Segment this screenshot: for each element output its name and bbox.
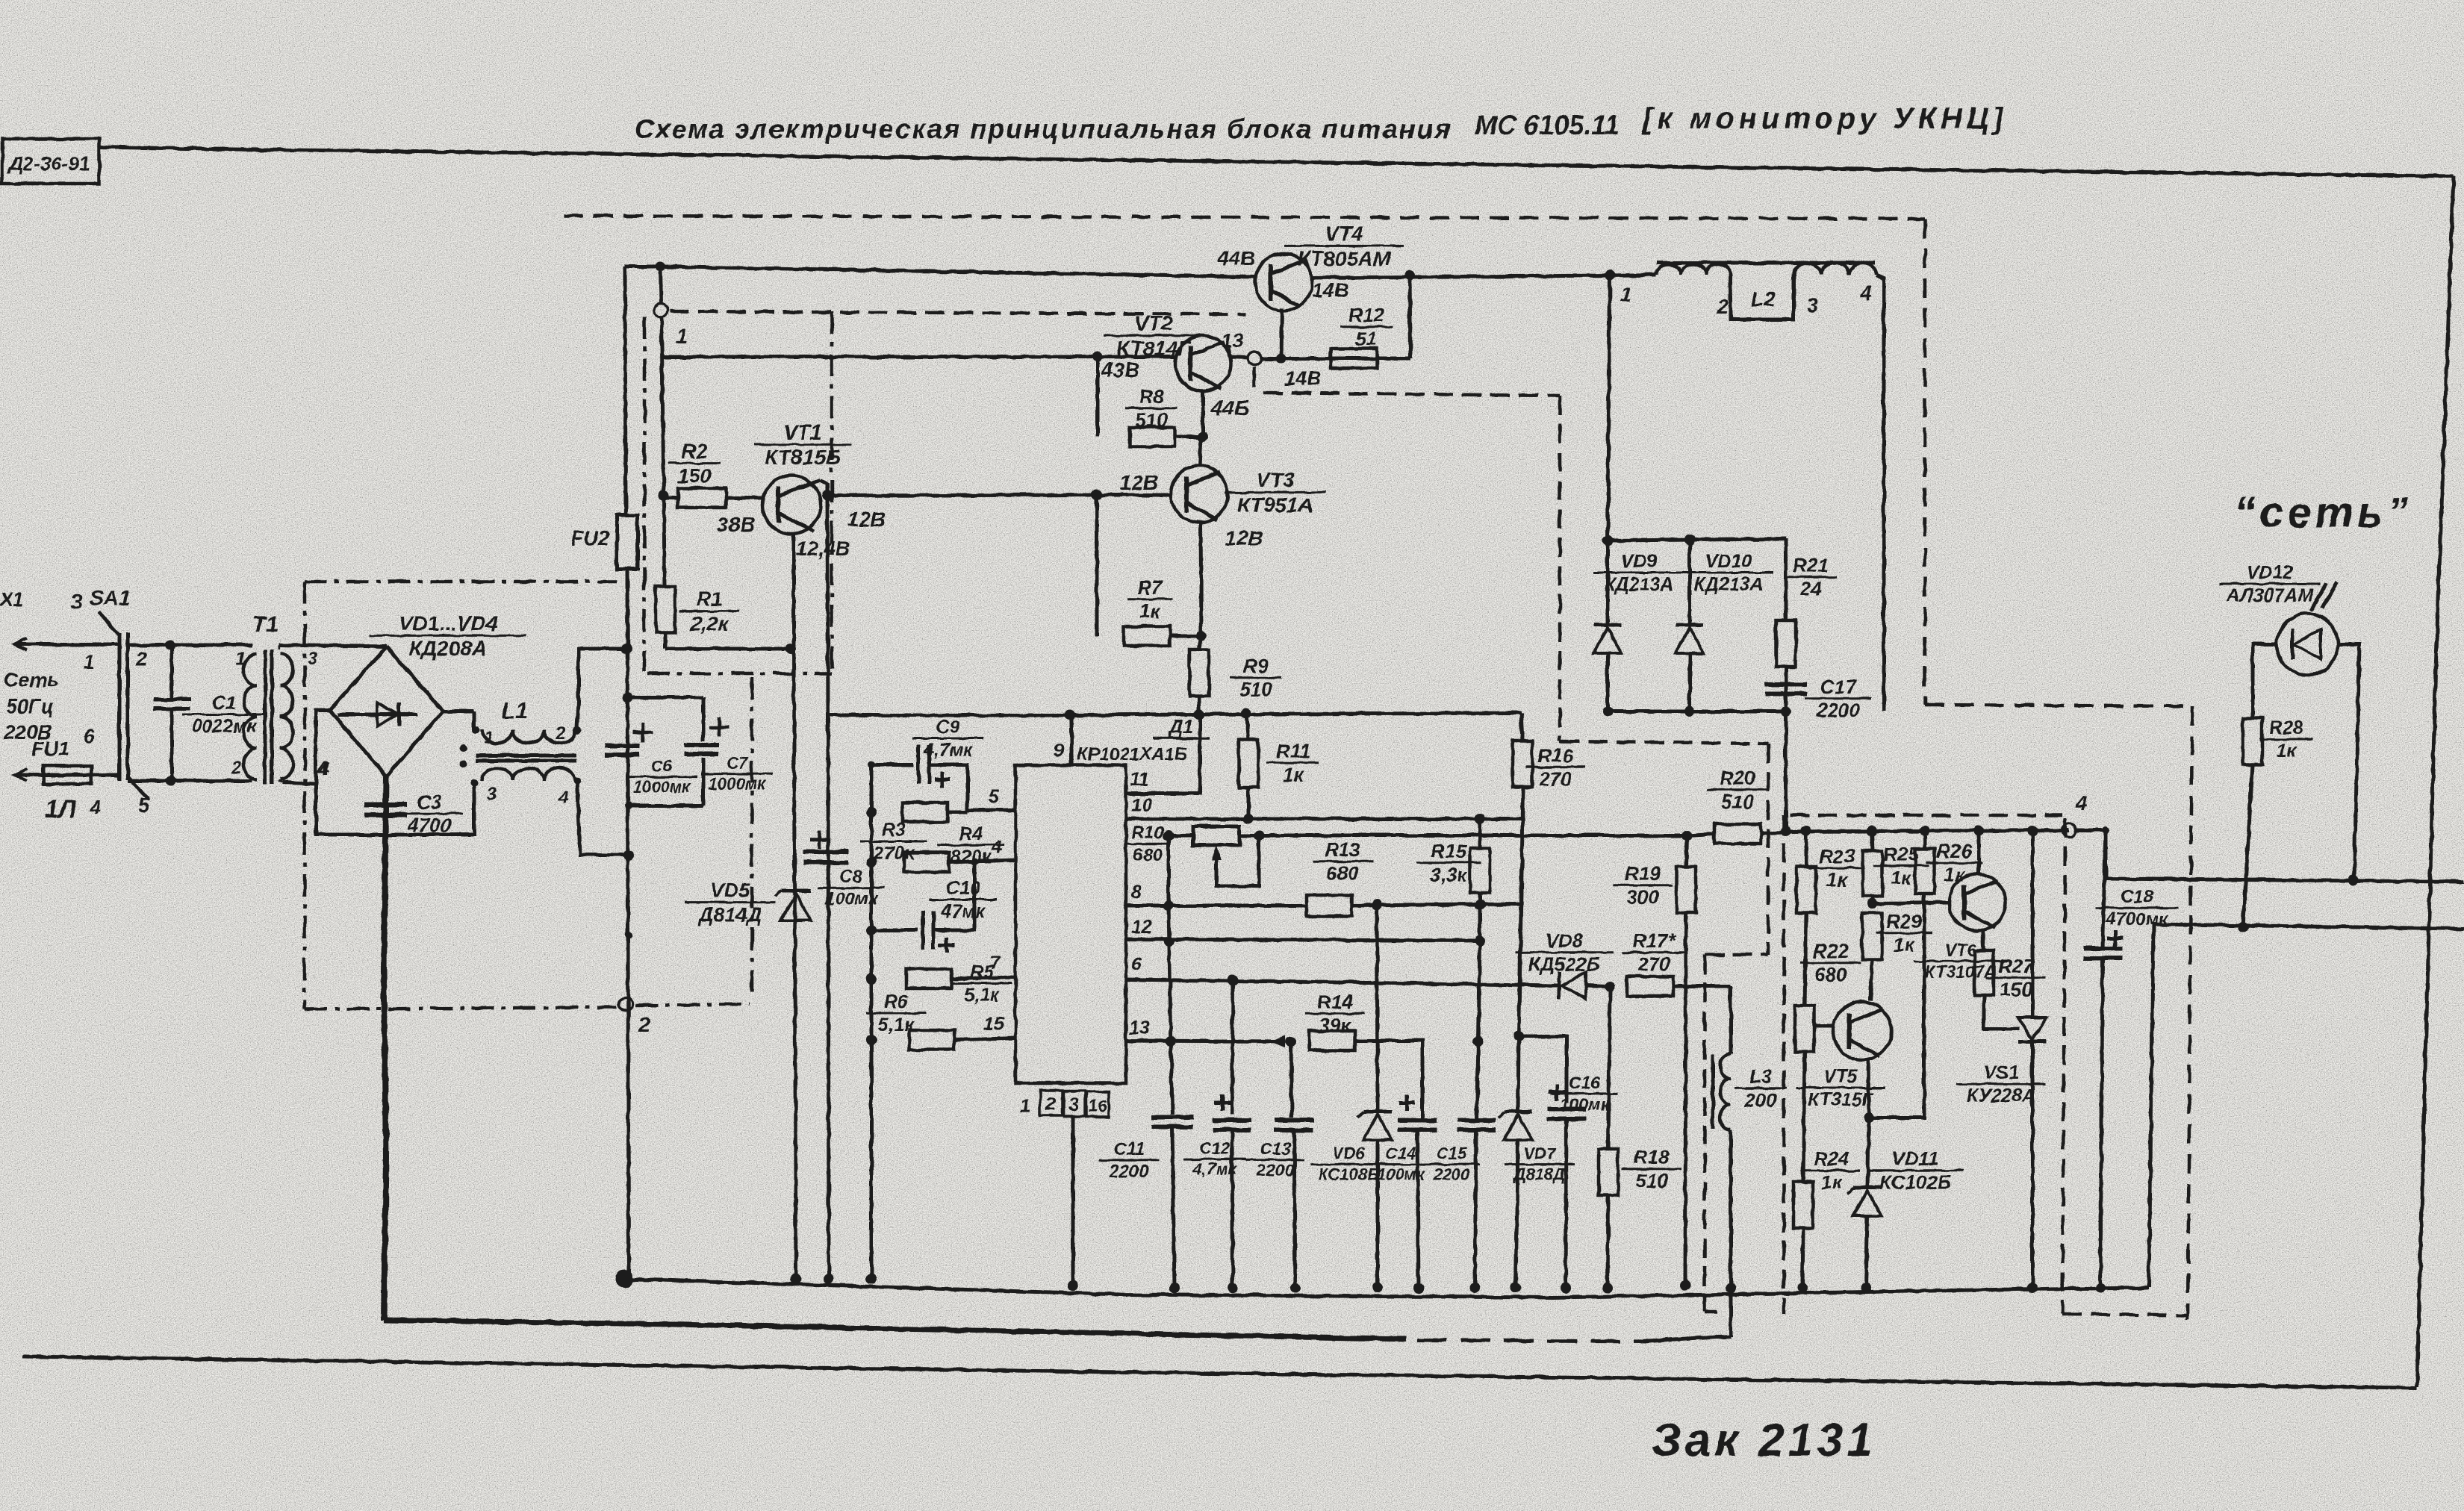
IC label D1 КР1021ХА1Б with pin 9 stub [1054, 715, 1210, 765]
svg-text:2: 2 [1717, 296, 1729, 318]
svg-text:14В: 14В [1312, 279, 1349, 302]
svg-text:VD6: VD6 [1333, 1144, 1366, 1163]
svg-text:200: 200 [1743, 1089, 1777, 1112]
L1 winding 1-2 [472, 726, 581, 744]
L1 winding 3-4 [470, 768, 581, 788]
zener VD6 КС108Б [1311, 905, 1392, 1293]
labels 4, 1Л, 5 [45, 794, 150, 823]
svg-text:4: 4 [317, 757, 329, 779]
resistor R9 510 [1189, 636, 1282, 720]
vertical rail from top bus through contact 1 [655, 261, 669, 649]
output bus wire + [2076, 830, 2464, 885]
svg-text:11: 11 [1130, 769, 1149, 790]
svg-text:1к: 1к [1826, 869, 1848, 891]
svg-text:680: 680 [1814, 964, 1847, 986]
svg-text:5,1к: 5,1к [964, 985, 1001, 1006]
bridge terminal 4 label [317, 757, 329, 779]
svg-text:2: 2 [555, 723, 566, 744]
voltage 43В [1101, 358, 1139, 381]
voltage 44Б [1210, 396, 1249, 420]
svg-text:R15: R15 [1431, 840, 1466, 862]
svg-text:100мк: 100мк [825, 889, 879, 909]
svg-text:1к: 1к [1894, 934, 1915, 956]
svg-text:С11: С11 [1113, 1139, 1145, 1159]
svg-text:VD8: VD8 [1546, 929, 1584, 952]
resistor R18 510 [1599, 986, 1681, 1293]
zener VD5 Д814Д [685, 879, 811, 926]
svg-text:R8: R8 [1139, 385, 1164, 408]
svg-text:47мк: 47мк [941, 901, 986, 922]
svg-text:10: 10 [1131, 795, 1152, 816]
voltage 12В at VT1 collector [847, 508, 886, 531]
top bus to VT4 base [625, 267, 1256, 277]
svg-text:С9: С9 [936, 717, 960, 738]
inductor L3 200 [1713, 1053, 1787, 1130]
pin 11 wire up to supply bus [1126, 714, 1200, 794]
svg-text:1: 1 [84, 651, 94, 673]
svg-text:МС 6105.11: МС 6105.11 [1475, 110, 1619, 140]
svg-text:150: 150 [677, 464, 711, 487]
capacitor C1 0022мк [153, 645, 265, 781]
L1 core [476, 755, 576, 761]
wire 13 to R12 [1261, 353, 1410, 364]
svg-text:3: 3 [1068, 1094, 1079, 1115]
svg-text:R3: R3 [882, 820, 906, 841]
svg-text:2: 2 [638, 1013, 650, 1036]
svg-text:L3: L3 [1749, 1065, 1773, 1088]
resistor R24 1к [1793, 1147, 1860, 1293]
svg-text:Д1: Д1 [1167, 715, 1193, 738]
resistor R27 150 [1974, 950, 2046, 1029]
svg-text:9: 9 [1054, 739, 1065, 761]
svg-text:44Б: 44Б [1210, 396, 1249, 420]
open contact 1 on dash line [654, 304, 688, 348]
svg-text:1к: 1к [2277, 741, 2297, 761]
svg-text:КС102Б: КС102Б [1879, 1171, 1951, 1194]
contact 2 label [135, 647, 148, 670]
capacitor C16 100мк [1519, 1036, 1618, 1293]
svg-text:Д814Д: Д814Д [697, 903, 762, 926]
svg-text:КТ951А: КТ951А [1237, 493, 1313, 517]
svg-text:510: 510 [1239, 679, 1272, 701]
svg-text:R24: R24 [1814, 1147, 1849, 1170]
svg-text:R22: R22 [1813, 940, 1849, 962]
svg-text:12: 12 [1131, 917, 1152, 938]
thyristor VS1 КУ228А [1956, 826, 2047, 1293]
open contact 4 [2062, 792, 2087, 837]
label VT2 КТ814Г [1104, 311, 1204, 360]
svg-text:2,2к: 2,2к [689, 612, 729, 635]
svg-text:SA1: SA1 [90, 586, 130, 609]
svg-text:Зак 2131: Зак 2131 [1652, 1415, 1876, 1466]
svg-text:С18: С18 [2121, 887, 2154, 907]
svg-text:2200: 2200 [1433, 1165, 1471, 1184]
svg-text:4: 4 [89, 796, 101, 818]
winding polarity dots [460, 744, 467, 767]
svg-text:VT5: VT5 [1823, 1066, 1858, 1087]
svg-text:[к монитору УКНЦ]: [к монитору УКНЦ] [1641, 102, 2008, 135]
svg-text:2200: 2200 [1816, 700, 1860, 722]
label VT4 КТ805АМ [1284, 222, 1404, 270]
svg-text:С6: С6 [651, 757, 673, 776]
pin 8 wire, resistor R13 junctions [1125, 882, 1522, 916]
resistor R29 1к [1862, 910, 1932, 1000]
svg-text:44В: 44В [1216, 246, 1255, 270]
svg-text:270: 270 [1637, 953, 1670, 976]
wire T1-4 to bridge ac2 [279, 781, 316, 784]
svg-text:R1: R1 [697, 588, 723, 611]
label VT3 КТ951А [1225, 468, 1326, 517]
resistor R7 1к [1097, 495, 1207, 646]
svg-text:VD7: VD7 [1524, 1144, 1558, 1163]
wire switch to C1, node [128, 640, 175, 650]
svg-text:510: 510 [1721, 791, 1754, 813]
label VD1...VD4 КД208А [370, 611, 526, 660]
diode VD8 КД522Б [1516, 929, 1613, 999]
resistor R19 300 [1613, 830, 1696, 1291]
svg-text:150: 150 [2000, 979, 2032, 1001]
svg-text:R13: R13 [1325, 838, 1360, 861]
svg-text:Сеть: Сеть [4, 669, 60, 691]
svg-text:1: 1 [236, 649, 246, 669]
svg-text:680: 680 [1133, 845, 1163, 865]
corner blob [615, 1270, 633, 1288]
wire bridge plus to L1 pin1 [443, 711, 474, 730]
wire VT1 collector to VT3 base [827, 490, 1172, 500]
svg-text:100мк: 100мк [1559, 1094, 1610, 1114]
svg-text:1к: 1к [1891, 867, 1912, 889]
capacitor C6 1000мк [606, 723, 697, 797]
svg-text:15: 15 [983, 1014, 1005, 1035]
svg-text:R21: R21 [1793, 554, 1829, 576]
emitter wire to L2 [1310, 270, 1656, 281]
capacitor C13 2200 [1246, 1041, 1313, 1293]
svg-text:3: 3 [487, 785, 497, 805]
resistor R6 5,1к and pin 15 wire [866, 991, 1015, 1050]
sheet right border line [2417, 176, 2454, 1387]
transformer T1 windings and core [243, 649, 293, 784]
title-block box Д2-36-91 [2, 139, 99, 184]
svg-text:14В: 14В [1284, 367, 1322, 390]
svg-text:51: 51 [1356, 328, 1378, 350]
trunk and top wire VD9 VD10 R21 [1602, 275, 1786, 620]
svg-text:КУ228А: КУ228А [1967, 1085, 2035, 1106]
svg-text:VS1: VS1 [1983, 1062, 2018, 1083]
svg-text:VD5: VD5 [711, 879, 751, 902]
svg-text:4: 4 [991, 837, 1002, 858]
svg-text:Д2-36-91: Д2-36-91 [7, 152, 90, 175]
wire bridge ac2 loop to L1 pin3 [316, 710, 474, 835]
svg-text:КД213А: КД213А [1693, 574, 1763, 595]
svg-text:100мк: 100мк [1377, 1165, 1426, 1184]
wire divider to R19/R20 [1169, 826, 1687, 845]
svg-text:3: 3 [1807, 294, 1818, 317]
svg-text:R7: R7 [1137, 576, 1163, 599]
svg-text:R14: R14 [1317, 991, 1353, 1013]
svg-text:FU1: FU1 [31, 738, 69, 760]
diode VD9 КД213А [1593, 540, 1684, 711]
fuse FU1 label [31, 738, 69, 760]
handwritten сеть [2234, 488, 2412, 537]
fuse FU1 with return wire arrow [15, 766, 118, 784]
svg-text:FU2: FU2 [571, 527, 609, 549]
svg-text:1: 1 [1020, 1096, 1030, 1117]
dashed box: main board outline right portion [564, 216, 2192, 1320]
capacitor C14 100мк [1369, 1094, 1437, 1293]
R10 wiper arm [1211, 837, 1259, 886]
title: Схема электрическая принципиальная блока питания МС 6105.11 [635, 102, 2008, 144]
label VT5 КТ315Г [1796, 1066, 1885, 1110]
svg-text:24: 24 [1799, 578, 1822, 600]
svg-text:1: 1 [1620, 284, 1631, 306]
svg-text:R12: R12 [1348, 304, 1384, 326]
svg-text:1к: 1к [1139, 600, 1161, 623]
resistor R17* 270 [1623, 929, 1732, 996]
pin 13 wire, resistor R14, corner to C14 [1125, 1018, 1422, 1120]
svg-text:С7: С7 [727, 754, 749, 773]
LED VD12 АЛ307АМ [2220, 562, 2339, 675]
svg-text:13: 13 [1129, 1018, 1150, 1038]
svg-text:Схема электрическая принципи: Схема электрическая принципиальная блока… [635, 113, 1452, 144]
svg-text:L1: L1 [502, 699, 528, 723]
svg-text:1000мк: 1000мк [709, 775, 767, 794]
resistor R28 1к [2243, 717, 2312, 927]
pin 5 wire [968, 786, 1015, 812]
svg-text:R20: R20 [1720, 767, 1755, 789]
svg-text:39к: 39к [1319, 1015, 1352, 1037]
svg-text:КС108Б: КС108Б [1318, 1165, 1378, 1184]
dash-dot box: low-voltage control enclosure [644, 312, 832, 999]
wire L1-2 up to rail [577, 644, 632, 728]
svg-text:270: 270 [1538, 768, 1572, 791]
bottom wire of snubber to output bus [1602, 706, 1791, 832]
svg-text:1000мк: 1000мк [633, 778, 691, 797]
wire down to L3 [1729, 986, 1733, 1053]
capacitor C11 2200 and divider leg [1098, 906, 1193, 1293]
svg-text:R19: R19 [1625, 862, 1661, 885]
svg-text:4: 4 [2075, 792, 2087, 814]
svg-text:С3: С3 [417, 791, 442, 813]
svg-text:4: 4 [558, 788, 568, 808]
svg-text:КД522Б: КД522Б [1528, 953, 1601, 976]
sheet bottom border line [22, 1356, 2417, 1388]
diode VD10 КД213А [1676, 540, 1773, 711]
svg-text:4,7мк: 4,7мк [1192, 1160, 1238, 1179]
svg-text:3,3к: 3,3к [1430, 864, 1468, 886]
zener VD7 Д818Д [1498, 1031, 1575, 1293]
svg-text:Х1: Х1 [0, 588, 24, 611]
svg-text:R29: R29 [1886, 910, 1922, 932]
capacitor C8 100мк [803, 831, 885, 909]
wire box around C6 C7 [623, 692, 703, 809]
svg-text:300: 300 [1626, 886, 1659, 909]
resistor R21 24 [1776, 539, 1837, 711]
svg-text:2: 2 [231, 758, 242, 778]
voltage 12В below VT3 [1225, 526, 1263, 549]
svg-text:С15: С15 [1437, 1144, 1467, 1163]
svg-text:С17: С17 [1820, 676, 1857, 698]
svg-text:2200: 2200 [1108, 1162, 1149, 1182]
transistor VT5 [1814, 982, 1891, 1123]
capacitor C9 4,7мк [871, 717, 984, 807]
svg-text:R28: R28 [2269, 717, 2303, 738]
svg-text:50Гц: 50Гц [6, 695, 54, 717]
handwritten Зак 2131 [1652, 1415, 1876, 1466]
svg-text:2: 2 [135, 647, 148, 670]
left rail wire [625, 267, 629, 1279]
dashed boundary around hot side / L3 box [670, 311, 1784, 1314]
IC bottom pins and ground stub [1020, 1090, 1109, 1291]
svg-text:R17*: R17* [1632, 929, 1677, 952]
svg-text:4700: 4700 [407, 814, 451, 837]
resistor R1 2,2к and wire to VT1 emitter [656, 587, 796, 654]
svg-text:2: 2 [1045, 1094, 1056, 1115]
svg-text:1к: 1к [1944, 864, 1965, 886]
label VT1 КТ815Б [754, 420, 851, 469]
svg-text:R18: R18 [1634, 1146, 1670, 1168]
dash-dot box: input filter enclosure [305, 582, 750, 1009]
svg-text:С14: С14 [1386, 1144, 1416, 1163]
svg-text:820к: 820к [951, 847, 992, 867]
svg-text:КР1021ХА1Б: КР1021ХА1Б [1077, 744, 1187, 764]
resistor R12 51 and riser to emitter wire [1331, 270, 1415, 368]
svg-text:КТ315Г: КТ315Г [1808, 1089, 1875, 1110]
fuse FU2 [571, 515, 638, 569]
capacitor C18 4700мк [2083, 826, 2178, 1293]
svg-text:R10: R10 [1131, 823, 1165, 843]
label R14 39к [1305, 991, 1365, 1037]
svg-text:“сеть”: “сеть” [2234, 488, 2412, 537]
svg-text:КД208А: КД208А [409, 637, 487, 660]
svg-text:VD11: VD11 [1891, 1147, 1938, 1170]
svg-text:С12: С12 [1200, 1139, 1231, 1158]
svg-text:VT4: VT4 [1325, 222, 1363, 245]
svg-text:VD1...VD4: VD1...VD4 [399, 611, 498, 635]
svg-text:R4: R4 [959, 823, 983, 844]
label VT6 КТ3107А [1914, 940, 2008, 981]
svg-text:12В: 12В [847, 508, 886, 531]
svg-text:4: 4 [1860, 282, 1872, 305]
svg-text:Т1: Т1 [252, 612, 279, 637]
transistor VT4 [1255, 254, 1312, 358]
wire T1-3 to bridge top [279, 645, 387, 649]
switch SA1 label and contact 3 [71, 586, 130, 613]
svg-text:6: 6 [84, 725, 95, 747]
capacitor C15 2200 [1423, 1121, 1496, 1294]
wire L3 to return rail [1726, 1130, 1736, 1336]
svg-text:12В: 12В [1120, 471, 1158, 494]
svg-text:L2: L2 [1751, 287, 1776, 311]
svg-text:38В: 38В [717, 513, 755, 536]
svg-text:R16: R16 [1537, 744, 1573, 767]
inductor L2 with taps 1 2 3 4 [1620, 263, 1884, 320]
svg-text:VT1: VT1 [783, 420, 821, 443]
label X1 [0, 588, 24, 611]
resistor R25 1к [1863, 826, 1929, 909]
svg-text:43В: 43В [1101, 358, 1139, 381]
voltage 12,4В [796, 538, 850, 560]
svg-text:АЛ307АМ: АЛ307АМ [2226, 585, 2314, 606]
pin 12 wire [1125, 917, 1485, 946]
voltage 44В at VT4 [1216, 246, 1255, 270]
voltage 14В [1312, 279, 1349, 302]
wire mains phase with arrow, pin 1 [15, 638, 118, 673]
svg-text:R23: R23 [1819, 845, 1855, 867]
svg-text:КТ3107А: КТ3107А [1925, 962, 1997, 981]
svg-text:R26: R26 [1936, 840, 1972, 862]
wire L2 pin4 down [1876, 275, 1884, 711]
resistor R3 270к [860, 803, 968, 864]
svg-text:2200: 2200 [1255, 1160, 1294, 1180]
label R10 680 [1126, 823, 1169, 865]
svg-text:R6: R6 [884, 991, 909, 1012]
pin 6 wire to VD8 R17 [1125, 954, 1615, 991]
svg-text:КТ815Б: КТ815Б [765, 446, 840, 469]
svg-text:R11: R11 [1276, 740, 1310, 762]
svg-text:6: 6 [1131, 954, 1142, 975]
svg-text:VT6: VT6 [1945, 940, 1976, 959]
svg-text:1: 1 [676, 325, 688, 348]
resistor R23 1к [1796, 826, 1865, 1006]
svg-text:13: 13 [1222, 329, 1243, 352]
svg-text:VT2: VT2 [1134, 311, 1173, 334]
vertical wire VT1 to bus to ground [824, 496, 834, 1284]
bridge diamond [330, 647, 443, 776]
svg-text:КТ805АМ: КТ805АМ [1298, 247, 1392, 270]
transistor VT1 [762, 476, 833, 649]
resistor R5 5,1к and pin 7 wire [906, 953, 1015, 1006]
wires C1 to T1 [171, 645, 252, 781]
resistor R2 150 [665, 440, 763, 508]
svg-text:С8: С8 [840, 867, 863, 887]
svg-text:1Л: 1Л [45, 795, 77, 823]
svg-text:R9: R9 [1243, 655, 1269, 677]
wire switch to C1 bottom, node [128, 776, 176, 786]
capacitor C10 47мк [871, 862, 997, 953]
zener VD11 КС102Б [1847, 1118, 1964, 1293]
svg-text:510: 510 [1635, 1170, 1668, 1192]
wire VT1 emitter to ground [791, 649, 801, 1284]
svg-text:3: 3 [71, 590, 83, 613]
label L1 [502, 699, 528, 723]
voltage 14В [1284, 367, 1322, 390]
svg-text:4700мк: 4700мк [2105, 909, 2169, 929]
resistor R8 510 [1098, 357, 1208, 446]
svg-text:12В: 12В [1225, 526, 1263, 549]
switch SA1 contacts [99, 612, 149, 799]
svg-text:3: 3 [308, 649, 318, 669]
svg-text:8: 8 [1131, 882, 1142, 903]
wire L1-4 to rail [577, 781, 634, 860]
capacitor C17 2200 [1765, 676, 1872, 722]
svg-text:7: 7 [990, 953, 1001, 973]
bus wire C8 node to R16 [827, 709, 1521, 720]
wire contact1 to VT2 base [662, 352, 1176, 362]
svg-text:1к: 1к [1283, 764, 1304, 786]
svg-text:R27: R27 [1998, 955, 2035, 977]
voltage 38В [717, 513, 755, 536]
LED wires [2253, 644, 2359, 880]
open contact 2 on dash line [619, 997, 650, 1036]
L1 pin labels [484, 723, 568, 808]
resistor R4 820к and pin 4 wire [904, 823, 1015, 872]
svg-text:Д818Д: Д818Д [1513, 1165, 1566, 1184]
resistor R26 1к and wire to VT5 emitter [1869, 826, 1982, 1118]
capacitor C7 1000мк [685, 717, 773, 794]
contact 6 label [84, 725, 95, 747]
resistor R15 3,3к and vertical to C15 [1417, 819, 1490, 1120]
svg-text:VD9: VD9 [1621, 551, 1658, 572]
